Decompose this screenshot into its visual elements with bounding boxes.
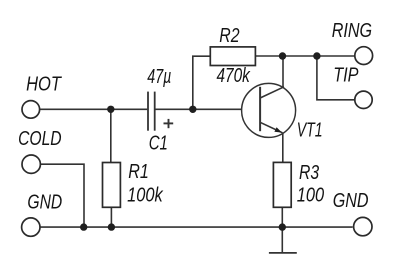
svg-text:47µ: 47µ (147, 66, 171, 88)
node A junction dot (107, 106, 114, 113)
svg-text:470k: 470k (217, 65, 252, 87)
wire base node up and over to R2 left (193, 56, 211, 109)
resistor R3 (273, 162, 291, 207)
wire R2 right to RING terminal (top rail) (255, 55, 355, 57)
node D junction dot (TIP rail) (313, 52, 320, 59)
svg-text:VT1: VT1 (297, 120, 323, 142)
node F junction dot (R1/bus) (108, 223, 115, 230)
wire emitter to R3 top (282, 133, 284, 163)
wire node A down to R1 top (110, 109, 112, 162)
svg-text:COLD: COLD (18, 128, 62, 150)
wire HOT to C1 left plate (40, 108, 148, 110)
wire R3 bottom to bus (281, 207, 283, 227)
svg-text:GND: GND (27, 192, 62, 214)
C1 polarity plus (164, 119, 174, 128)
svg-text:100: 100 (297, 184, 325, 206)
svg-text:R3: R3 (299, 162, 320, 184)
wire COLD to bottom bus (40, 164, 84, 227)
ground (269, 252, 297, 254)
terminal TIP (355, 91, 372, 108)
node B junction dot (base) (189, 106, 196, 113)
terminal RING (355, 47, 373, 65)
node C junction dot (collector rail) (279, 52, 286, 59)
wire bottom ground bus (40, 226, 353, 228)
svg-text:100k: 100k (127, 184, 164, 206)
transistor Q1 (VT1) (242, 83, 296, 137)
svg-text:C1: C1 (149, 132, 168, 154)
terminal GND left (22, 218, 40, 236)
resistor R2 (210, 47, 255, 66)
capacitor C1 (148, 92, 155, 131)
terminal GND right (354, 217, 372, 235)
svg-text:RING: RING (332, 20, 372, 42)
svg-text:HOT: HOT (26, 73, 62, 95)
svg-text:TIP: TIP (333, 64, 359, 86)
wire ground stem (281, 227, 283, 253)
node G junction dot (R3/ground) (279, 223, 286, 230)
svg-text:R1: R1 (128, 161, 149, 183)
resistor R1 (103, 163, 121, 208)
wire C1 right plate to VT1 base (155, 108, 242, 110)
terminal HOT (22, 101, 40, 119)
node E junction dot (COLD/bus) (80, 223, 87, 230)
wire collector drop (282, 56, 284, 87)
svg-text:GND: GND (333, 190, 369, 212)
svg-text:R2: R2 (219, 25, 240, 47)
wire TIP drop (317, 56, 355, 100)
wire R1 bottom to bus (110, 207, 112, 227)
terminal COLD (22, 155, 40, 173)
